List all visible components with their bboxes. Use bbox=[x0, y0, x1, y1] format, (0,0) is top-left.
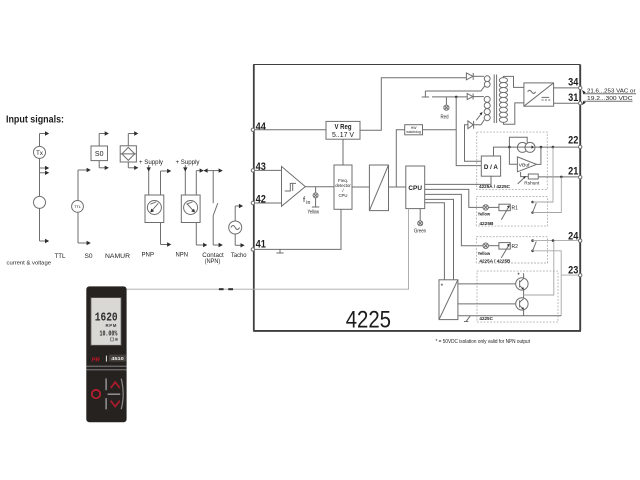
node D2 supply junction bbox=[455, 96, 458, 99]
svg-text:+ Supply: + Supply bbox=[139, 160, 163, 166]
svg-text:5..17 V: 5..17 V bbox=[332, 132, 354, 139]
button down chevron bbox=[111, 401, 120, 407]
badge 4510 bbox=[109, 355, 126, 362]
source circle (current & voltage) bbox=[34, 196, 46, 208]
wire HW watchdog to supply node bbox=[423, 129, 457, 131]
relay coil R1 bbox=[499, 204, 518, 212]
tacho generator bbox=[229, 221, 242, 234]
svg-text:NPN: NPN bbox=[176, 253, 189, 259]
wire Q1 emitter to Q2 collector bbox=[523, 289, 525, 299]
wire comparator output bbox=[305, 186, 334, 188]
terminal 42 bbox=[251, 194, 266, 206]
wire CPU to output isolation b bbox=[425, 203, 445, 280]
wire primary top to converter bbox=[503, 76, 524, 87]
wire freq detector to isolation bbox=[352, 186, 369, 188]
wire Rshunt to terminal 21 bbox=[538, 176, 578, 178]
label f in bbox=[303, 195, 310, 206]
svg-text:Rshunt: Rshunt bbox=[524, 180, 540, 185]
transistor Q2 bbox=[516, 298, 528, 310]
svg-text:PR: PR bbox=[92, 357, 101, 363]
svg-text:+ Supply: + Supply bbox=[176, 160, 200, 166]
TTL source circle bbox=[72, 201, 84, 213]
wire isolation to Q2 base bbox=[458, 303, 520, 305]
arrow adjustable relay R2 bbox=[501, 244, 509, 258]
diode D1 bbox=[466, 73, 484, 80]
node terminal 24 branch bbox=[552, 239, 555, 242]
wire to terminal 23 bbox=[561, 274, 578, 276]
wire mid node to terminal 24 bbox=[524, 241, 554, 295]
svg-text:Green: Green bbox=[414, 229, 426, 235]
LED yellow f_in bbox=[312, 187, 319, 207]
terminal 44 bbox=[251, 121, 266, 133]
svg-text:34: 34 bbox=[568, 76, 579, 88]
D/A converter bbox=[481, 156, 500, 176]
svg-text:V Reg: V Reg bbox=[335, 124, 352, 131]
LED green (CPU status) bbox=[418, 209, 423, 226]
wire current source bias loop bbox=[509, 137, 527, 147]
svg-text:D / A: D / A bbox=[484, 164, 498, 171]
wire PNP supply down arrow bbox=[147, 165, 151, 195]
svg-text:4225B: 4225B bbox=[479, 221, 494, 227]
LED yellow (relay 2) bbox=[483, 243, 499, 248]
wire HW watchdog tap bbox=[396, 130, 404, 187]
switch relay contact K1 bbox=[531, 201, 536, 214]
svg-text:* = 50VDC isolation only vali: * = 50VDC isolation only valid for NPN o… bbox=[436, 339, 531, 345]
wire D/A to current source bbox=[494, 147, 518, 156]
transmitter Tx bbox=[34, 146, 46, 158]
wire D2 node to D/A supply bbox=[456, 97, 481, 166]
wire primary bottom to converter bbox=[503, 103, 524, 124]
svg-text:(NPN): (NPN) bbox=[205, 259, 221, 265]
HW watchdog box bbox=[405, 125, 423, 135]
svg-text:44: 44 bbox=[256, 121, 267, 133]
wire TTL branch top stub bbox=[78, 168, 91, 201]
transformer secondary winding W1 bbox=[484, 76, 490, 87]
ground tick on rail bbox=[464, 316, 470, 322]
svg-text:43: 43 bbox=[256, 161, 266, 173]
wire W2 bottom to D3 bbox=[474, 120, 484, 125]
LED red (power) bbox=[444, 97, 449, 110]
transistor NPN sensor bbox=[181, 195, 200, 223]
svg-text:Input signals:: Input signals: bbox=[6, 115, 64, 126]
wire contact branch bottom stub bbox=[213, 243, 223, 247]
transistor PNP sensor bbox=[145, 195, 164, 223]
svg-text:Yellow: Yellow bbox=[308, 210, 320, 216]
svg-text:4225A / 4225C: 4225A / 4225C bbox=[479, 184, 511, 190]
svg-text:4225C: 4225C bbox=[479, 316, 493, 322]
display unit 4510 body bbox=[86, 286, 126, 422]
diode D3 bbox=[468, 121, 474, 129]
wire PNP branch right top stub bbox=[161, 169, 172, 195]
wire K1 bottom to terminal 21 bbox=[533, 177, 562, 213]
wire 42 to comparator bbox=[255, 202, 282, 204]
wire K2 bottom to terminal 23 bbox=[533, 251, 562, 316]
svg-text:S0: S0 bbox=[85, 254, 94, 260]
svg-text:21: 21 bbox=[568, 166, 578, 178]
isolation barrier input bbox=[369, 165, 388, 211]
wire S0 branch top stub bbox=[99, 131, 109, 146]
svg-text:24: 24 bbox=[568, 230, 579, 242]
terminal 22 bbox=[568, 135, 582, 149]
wire TTL branch bottom stub bbox=[78, 212, 91, 245]
LCD status icons bbox=[111, 338, 118, 341]
svg-text:R2: R2 bbox=[512, 244, 519, 250]
body separator lines bbox=[86, 366, 126, 370]
label Contact (NPN) bbox=[202, 253, 224, 265]
isolation barrier output bbox=[439, 280, 458, 320]
arrow adjustable relay R1 bbox=[501, 205, 509, 220]
svg-text:S0: S0 bbox=[95, 151, 104, 158]
wire K2 top to terminal 24 bbox=[533, 240, 579, 242]
wire isolation to Q1 base bbox=[458, 283, 520, 285]
svg-text:TTL: TTL bbox=[74, 205, 81, 209]
wire NPN supply down arrow bbox=[183, 165, 187, 195]
svg-text:VBuf: VBuf bbox=[519, 162, 531, 168]
terminal 24 bbox=[568, 230, 582, 242]
keypad bracket curve bbox=[121, 379, 123, 410]
AC/DC converter U2 bbox=[524, 83, 554, 106]
ground (transformer center) bbox=[422, 91, 429, 97]
svg-text:21.6...253 VAC or: 21.6...253 VAC or bbox=[587, 89, 636, 95]
wire current/voltage branch bottom stub bbox=[40, 208, 50, 243]
svg-text:NAMUR: NAMUR bbox=[105, 254, 131, 260]
wire tacho branch bottom stub bbox=[235, 234, 245, 248]
wire VReg output to diode D1 bbox=[360, 78, 466, 131]
svg-text:19.2...300 VDC: 19.2...300 VDC bbox=[587, 96, 633, 102]
wire converter to terminal 31 bbox=[554, 102, 579, 104]
wire CPU to display interface bbox=[127, 209, 409, 290]
svg-text:4510: 4510 bbox=[111, 356, 124, 361]
wire current/voltage branch middle with arrows bbox=[40, 158, 50, 196]
wire NPN branch right top stub bbox=[196, 168, 204, 195]
wire Q2 emitter to rail bbox=[523, 309, 525, 316]
current source bbox=[517, 142, 535, 152]
freq detector / CPU box bbox=[334, 165, 352, 209]
diode D2 bbox=[432, 94, 484, 100]
wire isolation common rail bbox=[458, 315, 561, 317]
svg-text:watchdog: watchdog bbox=[406, 130, 421, 134]
wire CPU to relay R1 driver bbox=[425, 189, 483, 207]
svg-text:Yellow: Yellow bbox=[478, 251, 491, 257]
transformer secondary winding W2 bbox=[484, 96, 490, 120]
4225 unit outline frame bbox=[253, 65, 581, 331]
arrow adjustable Rshunt bbox=[518, 176, 526, 184]
wire VBuf output feedback bbox=[537, 147, 541, 164]
wire CPU to D/A bbox=[425, 176, 491, 184]
wire PNP branch bottom stub bbox=[161, 223, 172, 247]
button OK ring bbox=[92, 390, 100, 398]
terminal 31 bbox=[568, 92, 582, 105]
wire current source to terminal 22 bbox=[535, 146, 579, 148]
svg-text:PNP: PNP bbox=[142, 253, 155, 259]
wire K1 top to terminal 22 bbox=[533, 147, 553, 202]
wire D3 to D/A supply bbox=[465, 125, 482, 162]
svg-text:CPU: CPU bbox=[408, 185, 422, 192]
svg-text:10.00%: 10.00% bbox=[100, 331, 118, 339]
transistor Q1 bbox=[516, 278, 528, 290]
wire isolation to CPU bbox=[389, 186, 406, 188]
terminal 43 bbox=[251, 161, 266, 173]
svg-text:RPM: RPM bbox=[105, 323, 117, 328]
keypad horizontal bar bbox=[108, 393, 121, 395]
dashed box 4225C (NPN output) bbox=[477, 271, 558, 322]
node terminal 21 branch bbox=[560, 176, 563, 179]
svg-text:4225A / 4225B: 4225A / 4225B bbox=[479, 258, 511, 264]
svg-text:31: 31 bbox=[568, 92, 578, 104]
wire VBuf input bbox=[509, 147, 517, 164]
LED yellow (relay 1) bbox=[483, 205, 499, 210]
wire current/voltage branch top stub bbox=[40, 131, 50, 146]
terminal 34 bbox=[568, 76, 582, 89]
dashed box 4225B (relay 1 output) bbox=[476, 197, 547, 227]
wire contact branch top double arrow bbox=[203, 168, 222, 172]
wire VReg to freq detector bbox=[342, 139, 344, 165]
wire 41 to freq detector bbox=[255, 209, 341, 249]
connector marks on display wire bbox=[219, 288, 233, 290]
transformer primary winding W3 bbox=[499, 78, 507, 123]
wire NAMUR branch top stub bbox=[128, 131, 138, 146]
wire CPU to output isolation a bbox=[425, 199, 454, 279]
wire tacho branch top stub bbox=[235, 204, 243, 221]
svg-text:CPU: CPU bbox=[338, 193, 347, 198]
transformer core bbox=[494, 75, 496, 124]
ground on 41 wire bbox=[276, 249, 283, 253]
node VBuf input junction bbox=[508, 146, 511, 149]
wire NPN branch bottom stub bbox=[196, 223, 207, 248]
svg-text:22: 22 bbox=[568, 135, 578, 147]
switch contact (NPN) bbox=[213, 171, 218, 245]
svg-text:4225: 4225 bbox=[346, 306, 391, 333]
svg-text:current & voltage: current & voltage bbox=[7, 261, 51, 267]
button up chevron bbox=[111, 382, 120, 388]
relay coil R2 bbox=[499, 243, 518, 251]
wire converter to terminal 34 bbox=[554, 87, 579, 89]
terminal 23 bbox=[568, 265, 582, 277]
wire CPU to relay R2 driver bbox=[425, 194, 483, 245]
node current source output bbox=[540, 146, 543, 149]
divider tick bbox=[105, 356, 107, 362]
keypad vertical bars bbox=[105, 378, 107, 409]
svg-text:Red: Red bbox=[441, 114, 449, 120]
svg-text:42: 42 bbox=[256, 194, 266, 206]
label 21.6..253 VAC with leader bbox=[582, 89, 636, 95]
dashed box 4225A / 4225B (relay 2 output) bbox=[476, 237, 547, 263]
svg-text:in: in bbox=[306, 200, 310, 206]
S0 counter box bbox=[91, 146, 108, 161]
wire NAMUR branch bottom stub bbox=[128, 162, 138, 170]
switch relay contact K2 bbox=[531, 239, 536, 252]
op-amp VBuf bbox=[517, 157, 536, 172]
dashed box 4225A / 4225C (analog output) bbox=[477, 132, 548, 190]
resistor Rshunt bbox=[521, 172, 539, 179]
wire W1 bottom to ground bbox=[425, 86, 484, 91]
wire 43 to comparator bbox=[255, 169, 282, 171]
svg-text:Tx: Tx bbox=[36, 151, 43, 157]
regulator VReg 5..17V bbox=[326, 121, 360, 139]
svg-text:R1: R1 bbox=[512, 206, 519, 212]
wire Q1 collector bbox=[523, 273, 525, 278]
svg-text:Yellow: Yellow bbox=[478, 212, 491, 218]
wire 44 to VReg bbox=[255, 129, 326, 131]
node terminal 22 branch bbox=[552, 146, 555, 149]
terminal 21 bbox=[568, 166, 582, 179]
CPU box bbox=[406, 166, 425, 209]
comparator U1 bbox=[282, 166, 306, 206]
arrow adjustable winding bbox=[476, 112, 482, 120]
wire S0 branch bottom stub bbox=[99, 161, 109, 170]
terminal 41 bbox=[251, 239, 266, 251]
display LCD panel bbox=[91, 298, 121, 346]
svg-text:TTL: TTL bbox=[55, 254, 67, 260]
label 19.2..300 VDC with leader bbox=[582, 96, 633, 105]
NAMUR sensor bbox=[120, 146, 136, 162]
svg-text:Tacho: Tacho bbox=[231, 253, 247, 259]
